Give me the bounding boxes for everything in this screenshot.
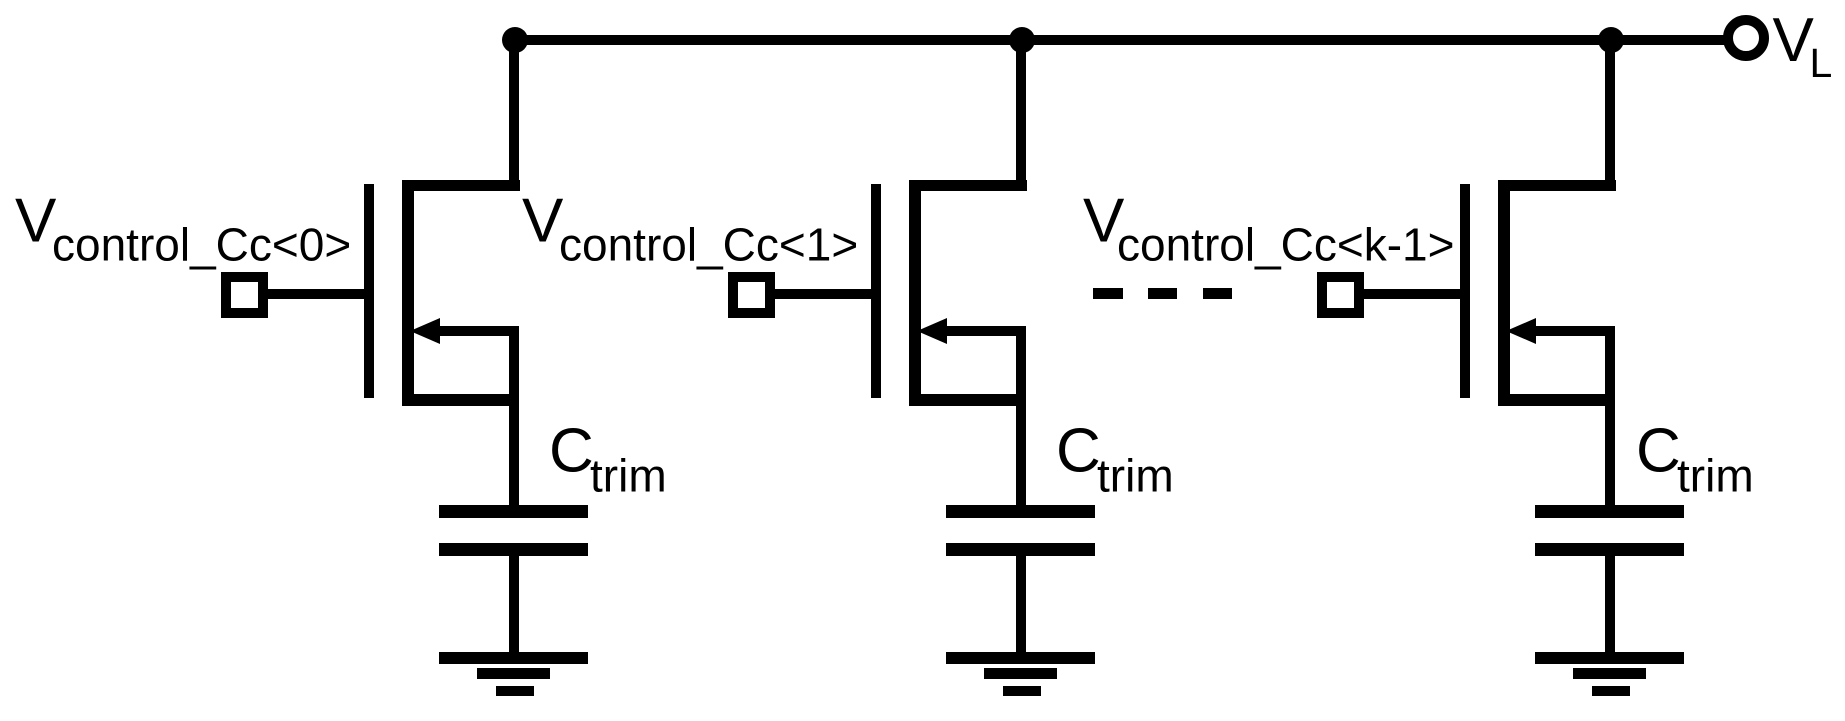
label Ctrim value (M0 branch)	[549, 417, 667, 502]
label Ctrim value (M1 branch)	[1056, 417, 1174, 502]
wire drain Mk-1 to VL rail	[1499, 35, 1616, 191]
svg-text:control_Cc<1>: control_Cc<1>	[559, 219, 858, 271]
svg-text:C: C	[1056, 417, 1101, 486]
ground (Mk-1 branch)	[1535, 652, 1684, 696]
wire Ctrim to ground (M1 branch)	[1016, 550, 1026, 658]
node junction dot Mk-1 drain / VL rail	[1598, 27, 1624, 53]
capacitor Ctrim (Mk-1 branch)	[1535, 505, 1684, 556]
svg-text:control_Cc<k-1>: control_Cc<k-1>	[1117, 219, 1455, 271]
svg-text:control_Cc<0>: control_Cc<0>	[52, 219, 351, 271]
svg-text:C: C	[549, 417, 594, 486]
capacitor Ctrim (M0 branch)	[439, 505, 588, 556]
terminal VL (open circle)	[1728, 20, 1764, 56]
ground (M1 branch)	[946, 652, 1095, 696]
svg-text:V: V	[15, 187, 57, 256]
wire drain M1 to VL rail	[910, 35, 1027, 191]
terminal square Vcontrol input Mk-1	[1322, 277, 1359, 313]
wire drain M0 to VL rail	[403, 35, 520, 191]
node junction dot M1 drain / VL rail	[1009, 27, 1035, 53]
terminal square Vcontrol input M0	[226, 277, 263, 313]
svg-text:trim: trim	[1677, 450, 1754, 502]
svg-text:L: L	[1810, 40, 1833, 86]
ground (M0 branch)	[439, 652, 588, 696]
wire dashed continuation (ellipsis between branches)	[1093, 288, 1232, 299]
wire source M1 to Ctrim	[1016, 400, 1026, 512]
wire gate M1	[771, 289, 873, 299]
wire source M0 to Ctrim	[509, 400, 519, 512]
wire Ctrim to ground (Mk-1 branch)	[1605, 550, 1615, 658]
svg-text:V: V	[522, 187, 564, 256]
label VL	[1773, 6, 1833, 86]
svg-text:trim: trim	[1097, 450, 1174, 502]
label Ctrim value (Mk-1 branch)	[1636, 417, 1754, 502]
svg-text:V: V	[1773, 6, 1815, 75]
terminal square Vcontrol input M1	[733, 277, 770, 313]
label Vcontrol_Cc<0>	[15, 187, 351, 271]
node junction dot M0 drain / VL rail	[502, 27, 528, 53]
transistor Mk-1	[1460, 180, 1615, 406]
svg-text:trim: trim	[590, 450, 667, 502]
wire gate Mk-1	[1360, 289, 1462, 299]
wire source Mk-1 to Ctrim	[1605, 400, 1615, 512]
wire Ctrim to ground (M0 branch)	[509, 550, 519, 658]
capacitor Ctrim (M1 branch)	[946, 505, 1095, 556]
wire VL top rail	[510, 35, 1724, 45]
label Vcontrol_Cc<1>	[522, 187, 858, 271]
transistor M0	[364, 180, 519, 406]
wire gate M0	[264, 289, 366, 299]
transistor M1	[871, 180, 1026, 406]
label Vcontrol_Cc<k-1>	[1083, 187, 1455, 271]
svg-text:C: C	[1636, 417, 1681, 486]
